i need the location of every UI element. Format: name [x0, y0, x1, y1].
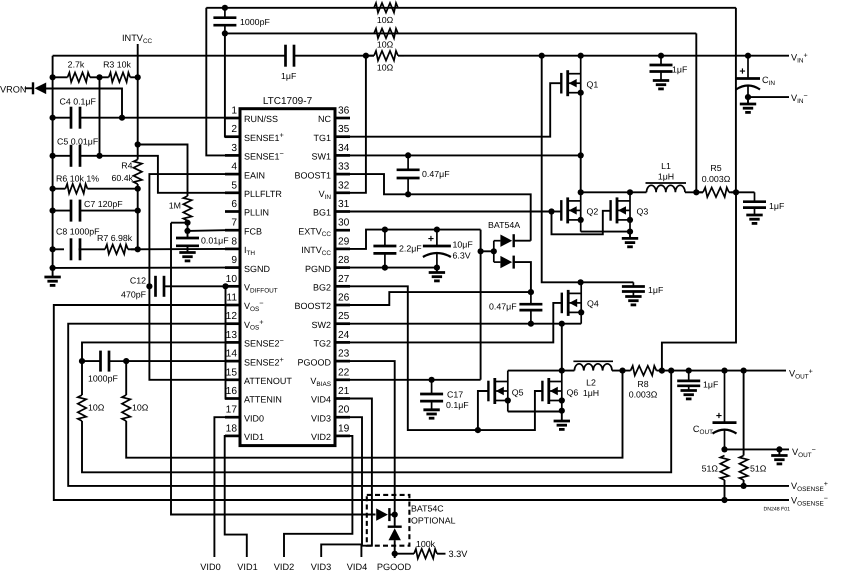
value label 470pF: [121, 290, 147, 300]
value label 1uF vout: [703, 380, 719, 390]
node node 10uF bottom: [434, 265, 440, 271]
svg-text:ATTENOUT: ATTENOUT: [244, 376, 292, 386]
ref label CIN: [762, 75, 775, 87]
pin 20 name VID3: [311, 413, 331, 423]
inductor L2 1uH: [573, 361, 613, 370]
inductor L1 1uH: [646, 183, 687, 192]
wire 100k to 3.3V: [437, 553, 446, 555]
wire Q2 source to Q3 ground: [581, 231, 630, 233]
node node SW2 drop: [559, 321, 565, 327]
node node R6 right: [135, 186, 141, 192]
svg-text:5: 5: [231, 180, 237, 191]
pin 4 stub: [225, 173, 240, 176]
svg-text:22: 22: [338, 367, 350, 378]
value label 10ohm right: [132, 403, 149, 413]
svg-text:VID0: VID0: [244, 413, 264, 423]
svg-text:10Ω: 10Ω: [377, 15, 394, 25]
pin 27 stub: [335, 285, 350, 288]
pin 21 name VID4: [311, 395, 331, 405]
capacitor 0.47uF (boost1): [397, 155, 420, 194]
svg-text:BG1: BG1: [313, 208, 331, 218]
svg-text:1000pF: 1000pF: [88, 374, 118, 384]
svg-text:31: 31: [338, 199, 350, 210]
wire BAT54C cathode link: [389, 514, 394, 516]
svg-text:1000pF: 1000pF: [240, 17, 270, 27]
pin 25 name SW2: [311, 320, 331, 330]
transistor Q1: [561, 56, 598, 156]
value label 6.3V: [453, 251, 471, 261]
pin 3 name SENSE1|-: [244, 149, 284, 162]
wire CIN ground lead: [747, 97, 749, 104]
pin 3 number: [231, 143, 237, 154]
wire PGND ground lead: [436, 268, 438, 273]
ground at C17 ground: [423, 410, 439, 418]
wire phase2 drain row: [508, 370, 575, 372]
svg-text:C4 0.1μF: C4 0.1μF: [60, 97, 97, 107]
node node Q6 source gnd: [559, 408, 565, 414]
svg-text:16: 16: [226, 386, 238, 397]
pin 24 name TG2: [313, 339, 331, 349]
wire riser 2.7k-R3 junction to C5 row: [99, 77, 101, 156]
node node ITH junction: [135, 246, 141, 252]
node node CIN bottom: [745, 94, 751, 100]
wire INTVCC rail low: [137, 189, 139, 250]
wire phase1 drain row: [581, 191, 647, 193]
pin 34 name SW1: [311, 152, 331, 162]
pin 9 stub: [225, 266, 240, 269]
pin 22 name V@BIAS: [310, 376, 331, 388]
node junction 1000pF top: [222, 5, 228, 11]
net label VID2: [274, 562, 294, 572]
ref label R4: [121, 161, 132, 171]
wire SW2 drop to L2 row: [561, 324, 563, 371]
net label VOSENSE-: [791, 493, 828, 507]
wire L1 to R5: [685, 191, 703, 193]
pin 19 name VID2: [311, 432, 331, 442]
resistor 10&#937; (sense2-): [78, 395, 86, 421]
pin 31 stub: [335, 210, 350, 213]
ground at phase1 out cap ground: [746, 215, 762, 223]
value label 100k: [416, 539, 436, 549]
wire VOS- net: [54, 305, 789, 500]
net label VID0: [200, 562, 220, 572]
capacitor 1uF (VIN pin bypass): [286, 45, 295, 67]
svg-text:51Ω: 51Ω: [702, 464, 719, 474]
pin 9 number: [231, 255, 237, 266]
value label 2.7k: [68, 60, 85, 70]
node node L2/R8 junction: [619, 368, 625, 374]
value label 2.2uF: [399, 244, 422, 254]
pin 30 number: [338, 218, 350, 229]
svg-text:26: 26: [338, 293, 350, 304]
ref label L1: [661, 161, 671, 171]
svg-text:PGND: PGND: [305, 264, 332, 274]
svg-text:VID2: VID2: [311, 432, 331, 442]
svg-text:470pF: 470pF: [121, 290, 147, 300]
wire L2 to R8: [612, 370, 631, 372]
diode BAT54C left half: [376, 508, 389, 521]
node node VIN pin riser: [363, 53, 369, 59]
svg-text:0.01μF: 0.01μF: [201, 236, 229, 246]
pin 28 number: [338, 255, 350, 266]
wire Q5 gate riser: [478, 391, 489, 430]
svg-text:2.7k: 2.7k: [68, 60, 85, 70]
capacitor 1000pF (sense2 filter): [82, 351, 126, 372]
svg-text:4: 4: [231, 162, 237, 173]
svg-text:BG2: BG2: [313, 283, 331, 293]
pin 16 stub: [225, 397, 240, 400]
pin 11 name V@OS|-: [244, 299, 264, 313]
pin 18 number: [226, 423, 238, 434]
wire wire VIN pin riser: [350, 56, 366, 193]
capacitor 1uF (vout bypass): [677, 371, 700, 391]
resistor R3 10k: [100, 73, 138, 83]
svg-text:1μF: 1μF: [703, 380, 719, 390]
svg-text:TG1: TG1: [313, 133, 331, 143]
wire SENSE1+ rail right: [695, 33, 697, 192]
pin 31 number: [338, 199, 350, 210]
pin 10 name V@DIFFOUT: [244, 283, 278, 295]
value label R6 10k 1%: [56, 174, 99, 184]
wire ITH row: [131, 248, 225, 250]
svg-text:BOOST1: BOOST1: [294, 170, 331, 180]
node node Q4 drain: [578, 279, 584, 285]
node node COUT tap: [721, 368, 727, 374]
pin 17 stub: [225, 416, 240, 419]
wire VIN+ drop rail: [542, 56, 634, 283]
svg-text:34: 34: [338, 143, 350, 154]
value label 0.47uF boost2: [489, 302, 517, 312]
wire VID1 net: [225, 436, 247, 557]
node node L1/R5 junction: [693, 189, 699, 195]
pin 34 number: [338, 143, 350, 154]
pin 20 stub: [335, 416, 350, 419]
svg-text:3.3V: 3.3V: [449, 549, 469, 559]
value label R5 0.003: [702, 174, 731, 184]
wire ATTENIN riser: [226, 286, 241, 398]
node node PGOOD: [392, 551, 398, 557]
node node VIN drop: [539, 53, 545, 59]
resistor 10&#937; (sense2+): [122, 395, 130, 421]
wire R5 out to VOUT rail: [662, 192, 736, 370]
wire FCB pin wire: [188, 229, 226, 232]
net label VIN+: [791, 50, 808, 64]
node node 51ohm left bottom: [721, 497, 727, 503]
ground at CIN ground: [740, 104, 756, 112]
capacitor 10uF 6.3V: [423, 230, 451, 268]
value label C5 0.01uF: [57, 137, 99, 147]
value label R7 6.98k: [97, 233, 133, 243]
value label 1uF right: [672, 65, 688, 75]
node node 2.7k left: [50, 74, 56, 80]
net label VID4: [347, 562, 367, 572]
svg-text:PGOOD: PGOOD: [297, 357, 331, 367]
svg-text:100k: 100k: [416, 539, 436, 549]
node junction 1000pF bottom: [222, 30, 228, 36]
svg-text:23: 23: [338, 349, 350, 360]
svg-text:BAT54A: BAT54A: [488, 220, 520, 230]
wire FCB long riser: [171, 223, 376, 515]
svg-text:1M: 1M: [169, 201, 181, 211]
pin 5 stub: [225, 191, 240, 194]
net label VOUT-: [792, 445, 816, 459]
svg-text:+: +: [739, 66, 745, 78]
svg-text:Q4: Q4: [587, 299, 599, 309]
svg-text:R6 10k 1%: R6 10k 1%: [56, 174, 99, 184]
node node BAT54A anode tap: [478, 248, 484, 254]
pin 18 name VID1: [244, 432, 264, 442]
value label R3 10k: [103, 60, 131, 70]
svg-text:FCB: FCB: [244, 226, 262, 236]
value label C4 0.1uF: [60, 97, 97, 107]
svg-text:EAIN: EAIN: [244, 170, 265, 180]
svg-text:SGND: SGND: [244, 264, 271, 274]
pin 5 number: [231, 180, 237, 191]
pin 35 name TG1: [313, 133, 331, 143]
svg-text:SENSE1+: SENSE1+: [244, 130, 284, 143]
svg-text:RUN/SS: RUN/SS: [244, 114, 278, 124]
capacitor 2.2uF: [373, 230, 396, 268]
wire BG1 row: [350, 211, 552, 213]
svg-text:+: +: [428, 233, 434, 245]
node node C5 left rail: [50, 153, 56, 159]
pin 21 stub: [335, 397, 350, 400]
svg-text:Q2: Q2: [587, 207, 599, 217]
capacitor C8 1000pF: [71, 238, 80, 260]
pin 32 name V@IN: [319, 189, 332, 201]
wire C8 row left: [53, 248, 64, 250]
svg-text:60.4k: 60.4k: [111, 173, 133, 183]
svg-text:0.003Ω: 0.003Ω: [629, 390, 658, 400]
value label 1M: [169, 201, 181, 211]
svg-text:R8: R8: [637, 379, 648, 389]
wire R4 bottom to R6 row: [137, 184, 139, 189]
pin 28 stub: [335, 266, 350, 269]
svg-text:20: 20: [338, 405, 350, 416]
svg-text:10Ω: 10Ω: [377, 40, 394, 50]
wire sense2- to bottom row: [82, 371, 671, 473]
svg-text:6: 6: [231, 199, 237, 210]
svg-text:C17: C17: [447, 390, 463, 400]
ground at ch2 boost cap ground: [625, 297, 641, 305]
node node SW1/0.47uF: [405, 152, 411, 158]
transistor Q6: [542, 371, 578, 411]
wire SENSE2- pin wire: [82, 342, 225, 361]
svg-text:Q5: Q5: [512, 387, 524, 397]
wire 10ohm left lead: [81, 361, 83, 395]
wire TG2 net: [350, 303, 562, 343]
svg-text:+: +: [716, 410, 722, 422]
pin 22 stub: [335, 378, 350, 381]
diode VRON: [25, 82, 47, 94]
pin 10 number: [226, 274, 238, 285]
svg-text:12: 12: [226, 311, 238, 322]
value label 0.01uF: [201, 236, 229, 246]
resistor 10&#937; (row1): [374, 3, 398, 13]
value label 10-ohm row2: [377, 40, 394, 50]
wire VOUT+ rail: [657, 370, 787, 372]
svg-text:Q6: Q6: [567, 387, 579, 397]
svg-text:29: 29: [338, 236, 350, 247]
net label VID3: [311, 562, 331, 572]
ground at vin bypass ground: [653, 81, 669, 89]
value label 51ohm right: [750, 464, 767, 474]
pin 1 name RUN/SS: [244, 114, 278, 124]
value label 0.47uF boost1: [422, 169, 450, 179]
svg-text:1μF: 1μF: [769, 201, 785, 211]
pin 14 name SENSE2|+: [244, 355, 284, 368]
pin 9 name SGND: [244, 264, 271, 274]
pin 18 stub: [225, 435, 240, 438]
pin 23 name PGOOD: [297, 357, 331, 367]
svg-text:0.47μF: 0.47μF: [422, 169, 450, 179]
pin 6 name PLLIN: [244, 208, 269, 218]
svg-text:1μF: 1μF: [648, 285, 664, 295]
svg-text:L2: L2: [586, 378, 596, 388]
svg-text:SENSE2+: SENSE2+: [244, 355, 284, 368]
pin 2 number: [231, 124, 237, 135]
ref label C17: [447, 390, 463, 400]
wire 1M to FCB node: [187, 221, 189, 238]
svg-text:30: 30: [338, 218, 350, 229]
diode BAT54C bottom half: [388, 527, 402, 541]
transistor Q5: [488, 371, 523, 412]
pin 26 name BOOST2: [294, 301, 331, 311]
svg-text:1μH: 1μH: [583, 388, 599, 398]
svg-text:R7 6.98k: R7 6.98k: [97, 233, 133, 243]
svg-text:14: 14: [226, 349, 238, 360]
node node SW1/Q2 drain: [578, 189, 584, 195]
pin 26 stub: [335, 304, 350, 307]
pin 15 name ATTENOUT: [244, 376, 292, 386]
svg-text:6.3V: 6.3V: [453, 251, 471, 261]
value label 10ohm left: [88, 403, 105, 413]
svg-text:1μH: 1μH: [658, 172, 674, 182]
wire BG1 to Q3 gate: [552, 211, 611, 235]
pin 8 name I@TH: [244, 245, 255, 257]
wire PLLFLTR net: [80, 156, 225, 193]
value label R8 0.003: [629, 390, 658, 400]
wire left ground rail: [52, 56, 54, 277]
value label L1 1uH: [658, 172, 674, 182]
wire R5 right to VIN cap: [731, 191, 755, 193]
node node R8 right: [659, 368, 665, 374]
svg-text:PLLIN: PLLIN: [244, 208, 269, 218]
wire C7 right: [80, 210, 138, 212]
pin 11 number: [226, 293, 237, 304]
svg-text:LTC1709-7: LTC1709-7: [263, 96, 313, 107]
node node ATTENIN riser top: [222, 283, 228, 289]
svg-text:19: 19: [338, 423, 350, 434]
ground at phase1 fet ground: [622, 238, 638, 246]
svg-text:BOOST2: BOOST2: [294, 301, 331, 311]
value label 51ohm left: [702, 464, 719, 474]
net label VRON: [0, 85, 27, 95]
pin 22 number: [338, 367, 350, 378]
value label 60.4k: [111, 173, 133, 183]
transistor Q4: [562, 282, 599, 323]
value label 10uF: [453, 240, 474, 250]
node node VOUT- ground tap: [776, 446, 782, 452]
svg-text:51Ω: 51Ω: [750, 464, 767, 474]
wire C7 row left: [53, 210, 71, 212]
svg-text:SW1: SW1: [311, 152, 331, 162]
svg-text:C12: C12: [130, 276, 146, 286]
svg-text:R4: R4: [121, 161, 132, 171]
wire INTVCC pin net: [350, 230, 481, 249]
node node 1000pF left: [79, 358, 85, 364]
pin 25 number: [338, 311, 350, 322]
resistor 51&#937; (right): [739, 456, 747, 481]
wire BOOST2 net: [350, 292, 531, 305]
svg-text:33: 33: [338, 162, 350, 173]
capacitor 1uF (VIN bypass right): [650, 56, 673, 81]
node node sense2- tap: [668, 368, 674, 374]
svg-text:VID3: VID3: [311, 413, 331, 423]
pin 23 number: [338, 349, 350, 360]
pin 24 number: [338, 330, 350, 341]
pin 34 stub: [335, 154, 350, 157]
wire Q6 ground lead: [561, 411, 563, 421]
svg-text:R3 10k: R3 10k: [103, 60, 131, 70]
ground at phase2 fet ground: [554, 421, 570, 429]
node node C8 left: [50, 246, 56, 252]
pin 17 name VID0: [244, 413, 264, 423]
wire BG1 to Q2 gate: [552, 211, 562, 213]
svg-text:11: 11: [226, 293, 237, 304]
value label 1000pF: [240, 17, 270, 27]
svg-text:VRON: VRON: [0, 85, 27, 95]
node node Q1 drain: [578, 53, 584, 59]
pin 25 stub: [335, 322, 350, 325]
svg-text:1μF: 1μF: [672, 65, 688, 75]
pin 6 number: [231, 199, 237, 210]
wire VOUT- row: [725, 448, 790, 450]
svg-text:VID2: VID2: [274, 562, 294, 572]
pin 12 number: [226, 311, 238, 322]
wire wire VRON diode to RUN/SS riser: [45, 89, 123, 118]
pin 8 stub: [225, 248, 240, 251]
svg-text:TG2: TG2: [313, 339, 331, 349]
ref label R5: [710, 163, 721, 173]
dashed box BAT54C optional: [367, 495, 410, 546]
ground at signal ground (left rail): [44, 277, 60, 285]
pin 3 stub: [225, 154, 240, 157]
wire BAT54A lower cathode to BOOST2: [514, 262, 531, 292]
wire VID3 net: [321, 417, 362, 557]
net label VID1: [237, 562, 257, 572]
svg-text:10Ω: 10Ω: [132, 403, 149, 413]
wire VID0 net: [214, 417, 225, 557]
node node 1uF out tap: [686, 368, 692, 374]
node node 2.2uF bottom: [382, 265, 388, 271]
svg-text:25: 25: [338, 311, 350, 322]
resistor 10&#937; (row2): [374, 29, 398, 39]
node node Q6 drain: [559, 368, 565, 374]
capacitor 0.47uF (boost2): [519, 292, 542, 323]
wire SENSE1- top row: [206, 7, 736, 9]
svg-text:SW2: SW2: [311, 320, 331, 330]
pin 16 number: [226, 386, 238, 397]
pin 11 stub: [225, 304, 240, 307]
svg-text:ATTENIN: ATTENIN: [244, 395, 282, 405]
wire VBIAS row: [350, 379, 481, 381]
pin 14 stub: [225, 360, 240, 363]
wire Q3 ground lead: [629, 232, 631, 239]
node node C12 left: [146, 283, 152, 289]
svg-text:DN248 F01: DN248 F01: [763, 507, 790, 513]
pin 20 number: [338, 405, 350, 416]
